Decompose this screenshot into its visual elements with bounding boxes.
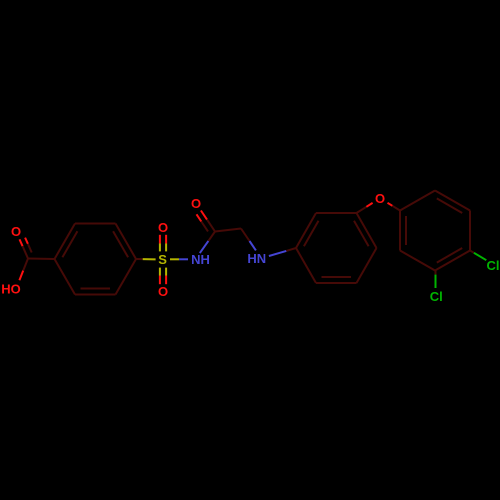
svg-text:HO: HO <box>1 281 21 296</box>
benzene ring A (left) <box>55 224 137 295</box>
S=O lower double bond <box>160 268 166 285</box>
bond carbonyl C to alpha C <box>215 229 241 232</box>
svg-text:O: O <box>158 220 168 235</box>
lower sulfonyl O <box>158 284 168 299</box>
svg-text:S: S <box>158 252 167 267</box>
anilino HN <box>247 251 266 266</box>
sulfonamide NH <box>191 252 210 267</box>
S=O upper double bond <box>160 235 166 252</box>
bond acid C to ring <box>28 258 55 261</box>
bond S to sulfonamide N <box>170 258 188 260</box>
S of sulfonyl <box>158 252 167 267</box>
svg-text:HN: HN <box>247 251 266 266</box>
bond sulfonamide N to carbonyl C <box>200 232 215 254</box>
carbonyl C=O double bond <box>197 211 216 232</box>
benzene ring C (right, dichlorophenyl) <box>400 191 470 271</box>
bond ring C to Cl (bottom) <box>435 271 437 289</box>
bond anilino N to ring B <box>269 248 296 256</box>
acid C-OH bond <box>19 259 28 281</box>
svg-text:NH: NH <box>191 252 210 267</box>
svg-text:Cl: Cl <box>487 258 500 273</box>
Cl bottom <box>430 289 443 304</box>
O of carboxylic acid <box>11 224 21 239</box>
benzene ring B (middle) <box>296 213 377 283</box>
carbonyl O <box>191 196 201 211</box>
ether O <box>375 191 385 206</box>
svg-text:O: O <box>191 196 201 211</box>
svg-text:O: O <box>158 284 168 299</box>
svg-text:Cl: Cl <box>430 289 443 304</box>
svg-text:O: O <box>11 224 21 239</box>
svg-text:O: O <box>375 191 385 206</box>
upper sulfonyl O <box>158 220 168 235</box>
bond ring B to ether O <box>357 203 373 213</box>
Cl right <box>487 258 500 273</box>
bond ether O to ring C <box>388 203 401 211</box>
bond ring C to Cl (right) <box>470 251 486 261</box>
bond ring A to S <box>136 258 156 260</box>
bond alpha C to anilino N <box>241 229 256 251</box>
HO of carboxylic acid <box>1 281 21 296</box>
carboxylic acid C=O double bond <box>20 238 32 259</box>
